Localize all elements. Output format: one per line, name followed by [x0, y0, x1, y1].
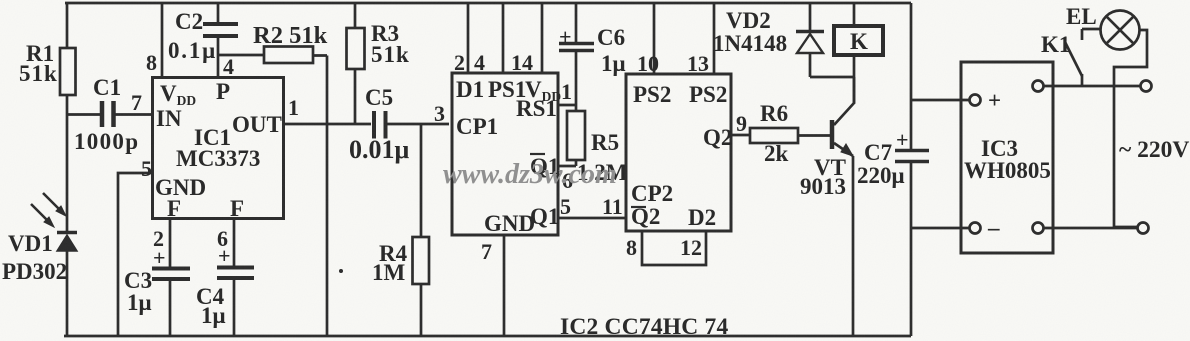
label 220V: [1119, 137, 1189, 163]
wire pin 8 VDD: [161, 3, 164, 77]
pin 7 label: [131, 90, 142, 115]
capacitor C3: [152, 269, 190, 337]
wire pin 4 P: [217, 55, 220, 77]
IC U2A CC74HC74 first flip-flop box: [452, 73, 558, 235]
capacitor C6: [559, 3, 594, 111]
wire pin 7 GND: [503, 235, 506, 336]
label C1 1000p: [74, 75, 139, 154]
label R4 1M: [372, 241, 408, 285]
terminal plus circle: [970, 95, 981, 106]
label C3 plus: [153, 245, 166, 270]
terminal ac right bottom circle: [1138, 223, 1149, 234]
resistor R3: [347, 3, 365, 124]
IC2a inner labels: [456, 77, 561, 236]
wire Q2bar pin 8 to D2 pin 12: [642, 231, 706, 265]
terminal minus circle: [970, 223, 981, 234]
capacitor C4: [217, 268, 254, 337]
capacitor C7: [895, 151, 929, 162]
wire pin 2 F: [169, 219, 172, 267]
label R2 51k: [253, 22, 328, 49]
pin 7 label: [481, 239, 492, 264]
label VD1 PD302: [2, 231, 67, 284]
overline for Q1bar: [530, 153, 545, 155]
wire right vertical C7 branch: [910, 3, 913, 336]
label R3 51k: [371, 21, 410, 67]
lamp EL: [1082, 11, 1147, 228]
resistor R4: [413, 124, 430, 336]
wire pin 9 Q2 out: [731, 134, 750, 137]
terminal ac top circle: [1033, 81, 1044, 92]
pin 4 label: [223, 54, 234, 79]
transistor VT 9013: [832, 77, 854, 336]
label VD2 1N4148: [713, 8, 787, 56]
pin 6 label: [562, 168, 573, 193]
wire DC minus to IC3: [911, 227, 970, 230]
capacitor C5: [374, 111, 449, 139]
IC1 inner labels: [155, 79, 282, 221]
pin labels 2 4 14: [454, 50, 533, 75]
label VT 9013: [800, 155, 846, 199]
IC2b inner labels: [631, 82, 732, 230]
pin 3 label: [434, 101, 445, 126]
label IC3 WH0805: [964, 88, 1051, 240]
diode VD2 1N4148: [796, 3, 854, 77]
pin 9 label: [736, 111, 747, 136]
label C6 1u: [597, 25, 626, 76]
label EL: [1066, 4, 1097, 29]
capacitor C2: [203, 3, 238, 55]
pin 8 label: [146, 50, 157, 75]
terminal ac bottom circle: [1033, 223, 1044, 234]
pin 2 label: [153, 226, 164, 251]
wire Q1 pin 5 to CP2 pin 11: [558, 217, 626, 220]
label C6 plus: [559, 24, 572, 49]
label C7 plus: [896, 127, 909, 152]
label C4 1u: [196, 284, 226, 328]
label K1: [1041, 32, 1070, 57]
wire AC top to terminal: [1044, 85, 1141, 88]
wire pin 13 PS2: [713, 3, 716, 74]
switch K1: [1065, 29, 1082, 86]
pin 11 label: [602, 194, 623, 219]
label C4 plus: [218, 243, 231, 268]
pin 1 label: [561, 79, 572, 104]
overline for Q2bar: [631, 206, 646, 208]
label IC2 CC74HC 74: [560, 314, 728, 340]
label K: [850, 29, 868, 54]
IC U3 WH0805 box: [961, 62, 1053, 253]
label C5 0.01u: [349, 85, 410, 164]
wire pin 1 RS1 stub: [558, 104, 576, 107]
wire pin 6 F: [233, 219, 236, 266]
wire pin 5 GND stub: [118, 173, 151, 336]
wire DC plus to IC3: [911, 99, 970, 102]
pin 5 label: [141, 156, 152, 181]
watermark: [443, 159, 617, 190]
wire bottom ground rail: [64, 335, 911, 338]
wire pin 1 OUT: [284, 123, 371, 126]
wire pin 10 PS2: [653, 3, 656, 74]
wire AC bottom to terminal: [1044, 227, 1138, 230]
pin 12 label: [680, 235, 702, 260]
pin labels 10 13: [637, 51, 709, 76]
IC U2B second flip-flop box: [626, 74, 731, 231]
label C3 1u: [124, 268, 152, 315]
wire top supply rail: [65, 2, 911, 5]
label C7 220u: [857, 140, 905, 188]
label C2 0.1u: [168, 9, 217, 63]
label R1 51k: [19, 41, 58, 86]
relay K: [834, 3, 883, 104]
resistor R6: [750, 128, 831, 143]
resistor R5: [567, 111, 585, 166]
terminal ac right top circle: [1141, 81, 1152, 92]
photodiode VD1: [31, 115, 77, 337]
label R5 1.2M: [577, 130, 628, 185]
wire pin 6 Q1bar stub: [558, 165, 576, 168]
wire pin 2 D1: [467, 3, 470, 72]
resistor R1: [60, 3, 76, 115]
pin 8 label: [626, 235, 637, 260]
resistor R2: [218, 47, 327, 64]
wire pin 4 PS1: [502, 3, 505, 72]
wire pin 14 VDD: [541, 3, 544, 72]
pin 1 label: [288, 95, 299, 120]
capacitor C1: [67, 101, 151, 127]
wire R2 to ground crossing: [326, 56, 329, 337]
pin 5 label: [560, 194, 571, 219]
stray dot: [339, 269, 343, 273]
IC U1 MC3373 box: [153, 78, 284, 219]
label R6 2k: [760, 101, 789, 166]
pin 6 label: [217, 226, 228, 251]
